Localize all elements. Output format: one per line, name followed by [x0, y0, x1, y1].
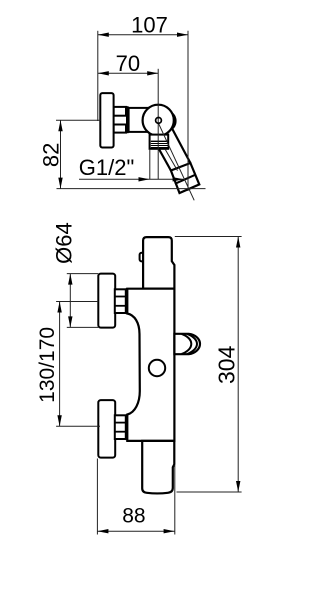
handle grip right edge — [172, 128, 191, 163]
arrow G1/2 end — [173, 177, 184, 181]
ext line O64 top — [67, 273, 99, 275]
wall flange plate — [100, 93, 113, 147]
arrow 82 top — [58, 120, 62, 131]
thin dimension and extension lines, top view — [56, 31, 206, 201]
grip inner thin line — [165, 149, 178, 171]
dim line 304 — [237, 237, 239, 493]
extension line left shared 107/70 — [97, 31, 99, 121]
arrow 107 left — [98, 33, 109, 37]
arrow 130/170 top — [57, 302, 61, 313]
arrowheads bottom view — [57, 237, 240, 534]
svg-text:Ø64: Ø64 — [52, 222, 77, 264]
arrow O64 top — [68, 274, 72, 285]
hose nut block — [150, 135, 169, 149]
hose nut ribs — [151, 141, 168, 149]
upper wall flange — [98, 274, 115, 328]
ext line 304 top — [175, 236, 242, 238]
ext line O64 bottom — [67, 326, 99, 328]
ext line 130/170 bottom — [56, 425, 100, 427]
pivot small circle — [156, 118, 162, 124]
arrow G1/2 mid — [139, 177, 150, 181]
arrow 70 left — [98, 71, 109, 75]
upper union nut — [115, 289, 126, 313]
dim 82 extension top — [56, 119, 101, 121]
nut ring — [126, 106, 129, 133]
svg-text:G1/2": G1/2" — [79, 155, 135, 180]
upper nut ring — [126, 288, 128, 314]
lower union nut — [115, 415, 126, 439]
arrow 130/170 bottom — [57, 415, 61, 426]
lower wall flange — [98, 400, 115, 458]
arrow 107 right — [177, 33, 188, 37]
handle grip left edge — [159, 149, 171, 170]
lever ring 1 — [182, 334, 192, 354]
swivel joint circle — [143, 105, 174, 136]
extension/center line through circle, 70 right — [157, 69, 159, 180]
arrow 88 left — [97, 529, 108, 533]
lever handle — [174, 334, 200, 354]
svg-text:82: 82 — [38, 143, 63, 167]
svg-text:88: 88 — [122, 504, 145, 527]
shower head face line — [175, 175, 196, 184]
handle grip fill — [159, 128, 190, 171]
extension line 107 right — [187, 31, 189, 191]
dim line 88 — [97, 530, 174, 532]
lever ring 2 — [187, 334, 197, 354]
arrow 304 top — [236, 237, 240, 248]
leader line G1/2 — [79, 178, 184, 180]
arrow 88 right — [164, 529, 175, 533]
bottom outlet — [142, 441, 174, 494]
holder clamp bump — [155, 111, 176, 132]
mixer body — [127, 289, 174, 441]
svg-text:70: 70 — [116, 51, 140, 76]
arrowheads top view — [58, 33, 188, 189]
wall pipe top bar — [114, 107, 126, 116]
arrow 304 bottom — [236, 481, 240, 492]
dim line 130/170 — [59, 302, 61, 427]
dim 82 extension bottom — [57, 188, 206, 190]
lower nut ring — [126, 414, 128, 440]
vertical line hose nut to leader — [149, 149, 151, 180]
handle axis line — [159, 124, 194, 200]
dimension line 107 — [98, 34, 188, 36]
body cylinder — [129, 108, 152, 132]
svg-text:107: 107 — [131, 12, 168, 37]
temperature dial circle — [149, 360, 165, 376]
ext line 88 right — [174, 465, 176, 535]
wall pipe bottom bar — [114, 125, 126, 133]
ext line 130/170 top — [56, 301, 98, 303]
thin dimension and extension lines, bottom view — [56, 237, 242, 535]
dimension line 82 — [60, 120, 62, 188]
arrow 70 right — [147, 71, 158, 75]
ext line 88 left — [96, 459, 98, 535]
svg-text:130/170: 130/170 — [36, 327, 59, 403]
arrow O64 bottom — [68, 316, 72, 327]
ext line 304 bottom — [177, 491, 242, 493]
temperature knob — [143, 237, 174, 289]
dim line O64 — [69, 274, 71, 328]
dimension line 70 — [98, 72, 158, 74]
svg-text:304: 304 — [213, 345, 239, 384]
shower head — [171, 163, 199, 193]
safety button on knob — [140, 253, 144, 262]
arrow 82 bottom — [58, 178, 62, 189]
